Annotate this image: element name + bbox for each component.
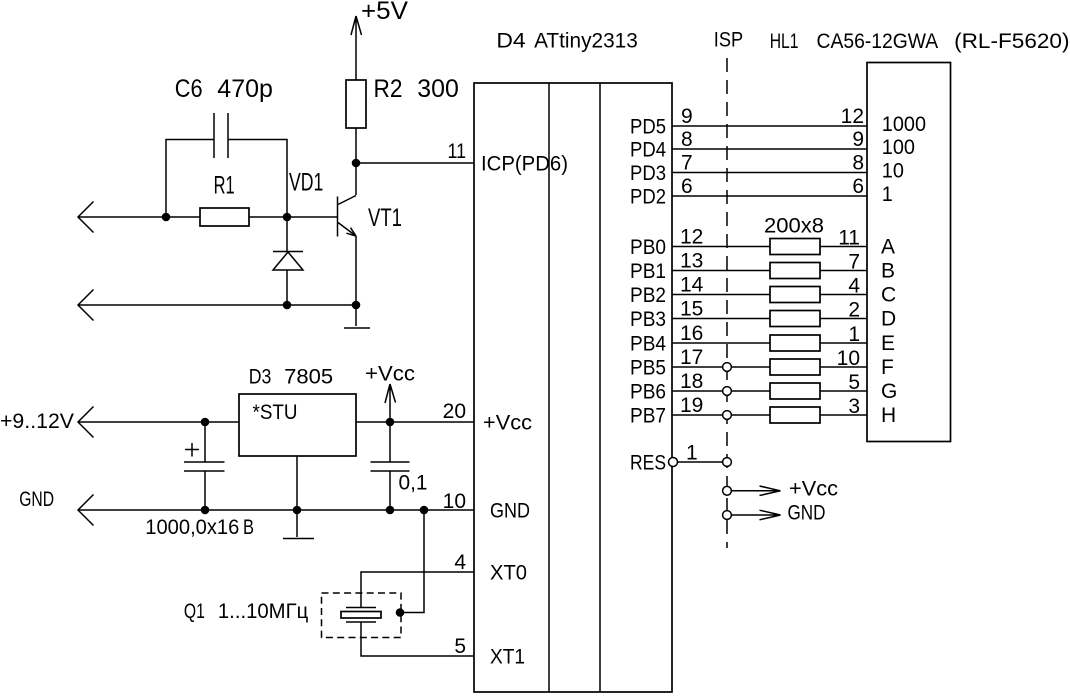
wire PD5 to display pin 12	[672, 105, 926, 136]
pin 5 XT1	[454, 635, 525, 669]
node R1 left junction	[162, 213, 171, 222]
svg-text:PD2: PD2	[630, 186, 666, 209]
svg-text:1...10МГц: 1...10МГц	[218, 600, 308, 623]
capacitor 0,1	[371, 422, 428, 510]
svg-text:GND: GND	[19, 488, 54, 511]
svg-text:1000: 1000	[882, 113, 926, 136]
svg-text:7805: 7805	[284, 366, 333, 389]
svg-text:+Vcc: +Vcc	[365, 363, 415, 386]
svg-text:5: 5	[454, 635, 466, 658]
svg-text:G: G	[881, 380, 897, 403]
svg-text:PD4: PD4	[630, 139, 666, 162]
svg-text:VT1: VT1	[368, 204, 402, 232]
svg-text:(RL-F5620): (RL-F5620)	[954, 30, 1069, 53]
svg-text:470p: 470p	[217, 75, 273, 103]
node base junction	[283, 213, 292, 222]
resistor network R PB2, display pin 4, segment C	[672, 275, 896, 307]
pin 8 PD4	[630, 128, 693, 162]
svg-text:C: C	[881, 284, 896, 307]
svg-text:E: E	[881, 332, 895, 355]
svg-text:D3: D3	[249, 366, 272, 389]
svg-text:1: 1	[686, 442, 698, 465]
resistor network R PB6, display pin 5, segment G	[672, 371, 897, 403]
wire crystal case to GND	[400, 510, 424, 613]
wire PD4 to display pin 9	[672, 128, 915, 159]
svg-text:12: 12	[841, 105, 864, 128]
svg-text:B: B	[881, 260, 895, 283]
pin 16 PB4	[630, 322, 703, 356]
svg-text:PB7: PB7	[630, 405, 666, 428]
svg-text:HL1: HL1	[770, 30, 799, 53]
svg-text:PB2: PB2	[630, 284, 666, 307]
wire node to IC pin 11	[356, 162, 474, 164]
pin 17 PB5	[630, 346, 703, 380]
svg-text:8: 8	[681, 128, 693, 151]
svg-text:PB0: PB0	[630, 236, 666, 259]
svg-text:+5V: +5V	[361, 0, 408, 25]
pin 18 PB6	[630, 370, 703, 404]
svg-text:PB5: PB5	[630, 357, 666, 380]
svg-text:17: 17	[680, 346, 703, 369]
svg-text:7: 7	[848, 251, 860, 274]
ground under VT1	[344, 327, 370, 329]
node ISP tap RES	[723, 458, 732, 467]
node GND at regulator	[293, 506, 302, 515]
transistor VT1	[338, 196, 403, 237]
svg-text:D4: D4	[496, 29, 526, 52]
svg-text:1: 1	[848, 323, 860, 346]
ISP +Vcc pin	[723, 478, 838, 501]
svg-text:R1: R1	[214, 171, 235, 199]
svg-text:GND: GND	[490, 500, 530, 523]
svg-text:PD5: PD5	[630, 116, 666, 139]
svg-text:11: 11	[448, 140, 467, 163]
svg-text:PD3: PD3	[630, 162, 666, 185]
wire R1 to base node	[249, 216, 337, 218]
svg-text:PB3: PB3	[630, 308, 666, 331]
svg-text:D: D	[881, 308, 896, 331]
svg-text:0,1: 0,1	[399, 472, 428, 495]
svg-text:200x8: 200x8	[764, 215, 824, 238]
node GND at crystal branch	[420, 506, 429, 515]
svg-text:+Vcc: +Vcc	[483, 412, 532, 435]
resistor network R PB4, display pin 1, segment E	[672, 323, 895, 355]
pin 20 +Vcc	[443, 400, 532, 435]
resistor R2	[346, 75, 459, 128]
pin 1 RES	[630, 442, 723, 475]
svg-text:10: 10	[882, 160, 904, 183]
node ISP tap PB7	[723, 411, 732, 420]
node emitter bottom junction	[352, 301, 361, 310]
wire R2 bottom to collector node	[355, 128, 357, 195]
resistor network R PB1, display pin 7, segment B	[672, 251, 895, 283]
wire XT1	[361, 623, 474, 657]
wire XT0	[361, 572, 474, 607]
IC D4 ATtiny2313 body	[474, 29, 672, 692]
wire C6 right lead	[228, 140, 287, 218]
wire regulator output to IC pin 20	[356, 421, 474, 423]
display HL1 body	[867, 63, 951, 442]
pin 12 PB0	[630, 226, 703, 260]
svg-text:8: 8	[852, 152, 864, 175]
ground under regulator	[283, 538, 314, 540]
node crystal case	[396, 608, 405, 617]
svg-text:C6: C6	[175, 75, 203, 103]
svg-text:1: 1	[882, 183, 893, 206]
svg-text:CA56-12GWA: CA56-12GWA	[817, 30, 939, 53]
svg-text:1000,0x16: 1000,0x16	[145, 516, 239, 539]
svg-text:14: 14	[680, 274, 704, 297]
svg-text:11: 11	[838, 227, 860, 250]
wire GND rail to IC pin 10	[78, 509, 474, 511]
svg-text:6: 6	[852, 175, 864, 198]
ISP connector dashed line	[714, 29, 743, 549]
regulator D3 7805	[239, 366, 356, 457]
svg-text:В: В	[243, 516, 254, 539]
svg-text:16: 16	[680, 322, 703, 345]
node electrolytic cap top	[201, 418, 210, 427]
resistor R1	[200, 171, 249, 226]
svg-text:RES: RES	[630, 452, 666, 475]
pin 13 PB1	[630, 250, 703, 284]
wire +9..12V to regulator input	[78, 421, 239, 423]
svg-text:18: 18	[680, 370, 703, 393]
resistor network R PB7, display pin 3, segment H	[672, 395, 896, 427]
wire C6 left lead	[166, 140, 214, 218]
resistor network R PB3, display pin 2, segment D	[672, 299, 896, 331]
svg-text:3: 3	[848, 395, 860, 418]
svg-text:7: 7	[681, 152, 693, 175]
svg-text:19: 19	[680, 394, 703, 417]
svg-text:9: 9	[681, 105, 693, 128]
svg-text:Q1: Q1	[184, 600, 205, 623]
off-page arrow +9..12V	[0, 407, 94, 438]
svg-text:A: A	[881, 236, 895, 259]
crystal Q1	[184, 593, 401, 638]
svg-text:PB4: PB4	[630, 333, 666, 356]
svg-text:ICP(PD6): ICP(PD6)	[481, 153, 568, 176]
pin 9 PD5	[630, 105, 693, 139]
svg-text:XT0: XT0	[490, 562, 527, 585]
diode VD1	[273, 169, 323, 305]
pin 19 PB7	[630, 394, 703, 428]
off-page arrow lower left	[78, 290, 94, 321]
svg-text:*STU: *STU	[253, 401, 298, 424]
svg-text:300: 300	[417, 75, 459, 103]
pin 15 PB3	[630, 298, 703, 332]
svg-text:+9..12V: +9..12V	[0, 410, 74, 433]
pin 11 ICP(PD6)	[448, 140, 569, 176]
node ISP tap PB5	[723, 363, 732, 372]
capacitor 1000,0x16V electrolytic	[145, 422, 254, 539]
svg-text:PB1: PB1	[630, 260, 666, 283]
wire emitter down	[355, 236, 357, 326]
svg-text:ISP: ISP	[714, 29, 743, 52]
wire PD3 to display pin 8	[672, 152, 904, 183]
off-page arrow upper left	[78, 202, 94, 233]
svg-text:6: 6	[681, 175, 693, 198]
ISP GND pin	[723, 502, 826, 525]
node 0,1 cap top	[386, 418, 395, 427]
capacitor C6	[175, 75, 273, 158]
pin 10 GND	[443, 490, 530, 523]
node GND at electrolytic	[201, 506, 210, 515]
svg-text:VD1: VD1	[289, 169, 323, 197]
node ISP tap PB6	[723, 387, 732, 396]
svg-text:GND: GND	[788, 502, 826, 525]
svg-text:PB6: PB6	[630, 381, 666, 404]
svg-text:13: 13	[680, 250, 703, 273]
svg-text:20: 20	[443, 400, 466, 423]
svg-text:5: 5	[848, 371, 860, 394]
node GND at 0,1 cap	[386, 506, 395, 515]
svg-text:4: 4	[454, 551, 466, 574]
pin 4 XT0	[454, 551, 527, 585]
svg-text:H: H	[881, 404, 896, 427]
pin 6 PD2	[630, 175, 693, 209]
wire left to R1	[78, 216, 200, 218]
pin 7 PD3	[630, 152, 693, 186]
svg-text:15: 15	[680, 298, 703, 321]
svg-text:12: 12	[680, 226, 703, 249]
svg-text:2: 2	[848, 299, 860, 322]
svg-text:+Vcc: +Vcc	[789, 478, 838, 501]
wire PD2 to display pin 6	[672, 175, 893, 206]
svg-text:R2: R2	[374, 75, 403, 103]
svg-text:10: 10	[837, 347, 860, 370]
node diode bottom junction	[283, 301, 292, 310]
svg-text:F: F	[881, 356, 894, 379]
power +Vcc symbol	[365, 363, 415, 423]
pin 14 PB2	[630, 274, 704, 308]
svg-text:ATtiny2313: ATtiny2313	[534, 29, 638, 52]
power +5V	[351, 0, 408, 80]
off-page arrow GND left	[19, 488, 93, 525]
resistor network R PB5, display pin 10, segment F	[672, 347, 894, 379]
svg-text:4: 4	[848, 275, 860, 298]
svg-text:9: 9	[852, 128, 864, 151]
svg-text:XT1: XT1	[490, 646, 525, 669]
svg-text:100: 100	[882, 136, 915, 159]
node collector/ICP junction	[352, 159, 361, 168]
wire bottom return line	[78, 304, 356, 306]
resistor network R PB0, display pin 11, segment A	[672, 227, 895, 259]
wire regulator ground lead	[296, 456, 298, 537]
